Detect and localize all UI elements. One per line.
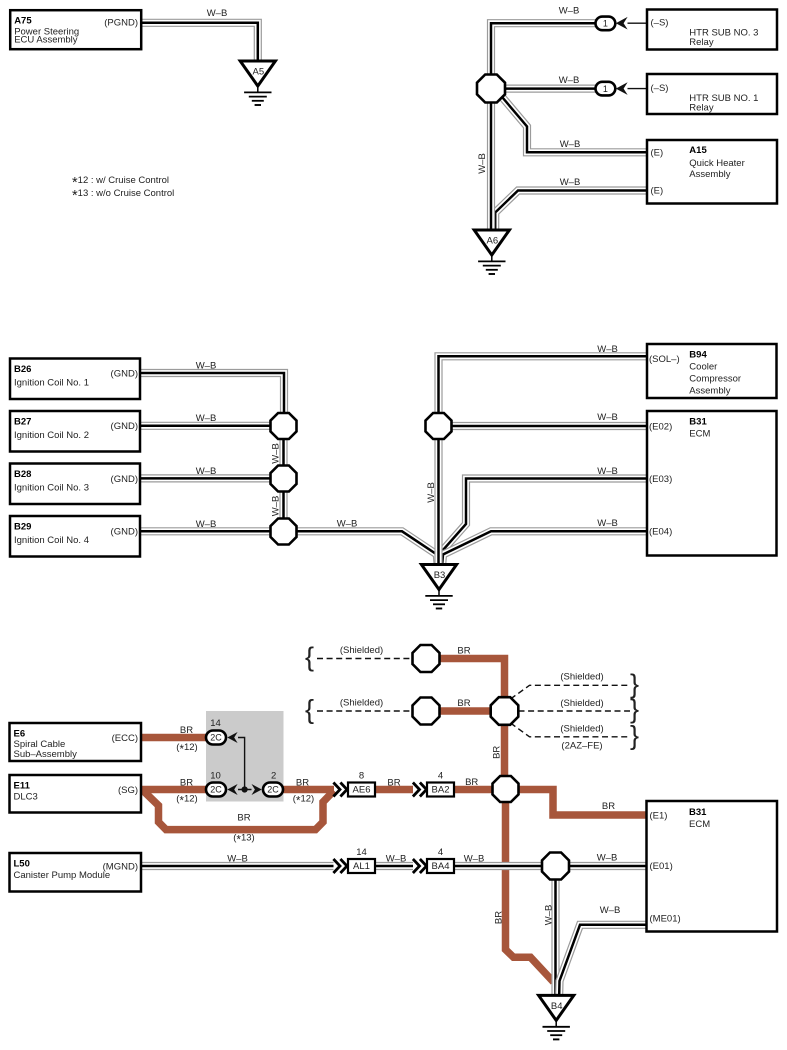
shielded cable right no.1 (dashed + brace) bbox=[511, 669, 640, 699]
svg-text:ECU Assembly: ECU Assembly bbox=[14, 35, 78, 46]
svg-text:(Shielded): (Shielded) bbox=[340, 645, 383, 656]
junction octagon W-B splice (E01) bbox=[542, 853, 569, 880]
svg-text:Ignition Coil No. 1: Ignition Coil No. 1 bbox=[14, 377, 89, 388]
svg-text:W–B: W–B bbox=[337, 519, 358, 530]
svg-text:W–B: W–B bbox=[544, 905, 555, 926]
svg-text:Quick Heater: Quick Heater bbox=[689, 158, 744, 169]
junction octagon shielded no.2 bbox=[413, 698, 440, 725]
junction octagon coil row 3 bbox=[271, 466, 297, 492]
svg-text:B28: B28 bbox=[14, 469, 31, 480]
svg-text:W–B: W–B bbox=[271, 443, 282, 464]
svg-text:AE6: AE6 bbox=[353, 785, 371, 796]
svg-text:Ignition Coil No. 4: Ignition Coil No. 4 bbox=[14, 535, 89, 546]
svg-text:W–B: W–B bbox=[271, 496, 282, 517]
svg-text:BR: BR bbox=[465, 777, 478, 788]
svg-text:W–B: W–B bbox=[196, 519, 217, 530]
svg-text:BR: BR bbox=[387, 777, 400, 788]
wire W-B from B31 (ME01) to ground B4 bundle bbox=[559, 905, 647, 994]
arrow into 2C pin 2 bbox=[252, 784, 262, 795]
svg-text:W–B: W–B bbox=[227, 854, 248, 865]
svg-text:BA2: BA2 bbox=[432, 785, 450, 796]
svg-text:W–B: W–B bbox=[196, 361, 217, 372]
wire W-B from junction to A15 (E) upper bbox=[503, 98, 648, 153]
wire W-B trunk junction down to ground B3 bbox=[426, 439, 439, 564]
svg-text:W–B: W–B bbox=[196, 466, 217, 477]
junction octagon BR splice bbox=[493, 776, 519, 802]
svg-text:W–B: W–B bbox=[597, 518, 618, 529]
svg-text:BR: BR bbox=[180, 777, 193, 788]
ground A5 bbox=[240, 61, 275, 105]
svg-text:14: 14 bbox=[210, 718, 221, 729]
component HTR SUB NO.1 Relay bbox=[647, 74, 777, 114]
svg-text:Ignition Coil No. 2: Ignition Coil No. 2 bbox=[14, 430, 89, 441]
shielded cable row 1 (dashed + brace) bbox=[305, 642, 412, 672]
svg-text:2C: 2C bbox=[210, 733, 222, 743]
svg-text:(Shielded): (Shielded) bbox=[560, 671, 603, 682]
wire BR shielded junction no.2 to main junction bbox=[439, 698, 491, 711]
svg-text:(PGND): (PGND) bbox=[104, 18, 138, 29]
shielded cable right no.2 (dashed + brace) bbox=[519, 694, 640, 724]
component E6 Spiral Cable Sub-Assembly bbox=[10, 723, 142, 761]
wire BR (*13) bypass w/o cruise control bbox=[143, 791, 334, 847]
note cruise control variants bbox=[72, 175, 174, 204]
junction octagon shielded main bbox=[491, 697, 519, 725]
connector BA4 pin 4 bbox=[427, 847, 454, 873]
svg-text:W–B: W–B bbox=[464, 854, 485, 865]
svg-text:2: 2 bbox=[271, 770, 276, 781]
ground A6 bbox=[474, 230, 509, 274]
wire W-B from B31 (E04) to ground B3 bundle bbox=[442, 518, 647, 563]
svg-text:W–B: W–B bbox=[597, 853, 618, 864]
wire W-B from junction up to HTR SUB NO.3 relay connector bbox=[491, 6, 596, 76]
svg-text:B4: B4 bbox=[551, 1001, 563, 1012]
component B28 Ignition Coil No.3 bbox=[10, 464, 140, 505]
svg-text:}: } bbox=[630, 694, 639, 724]
svg-text:B29: B29 bbox=[14, 522, 31, 533]
svg-text:1: 1 bbox=[603, 19, 608, 29]
svg-text:14: 14 bbox=[356, 847, 367, 858]
wire BR from junction down to ground B4 bundle bbox=[493, 800, 553, 982]
svg-text:(SOL–): (SOL–) bbox=[649, 354, 680, 365]
svg-text:Compressor: Compressor bbox=[689, 374, 741, 385]
svg-text:B27: B27 bbox=[14, 417, 31, 428]
svg-text:A75: A75 bbox=[14, 16, 32, 27]
arrow at 2C pin 10 bbox=[227, 784, 237, 795]
wire BR from E11 (SG) to connector 2C pin 10 bbox=[141, 777, 207, 807]
splice chevrons before BA4 bbox=[413, 859, 427, 873]
svg-text:(MGND): (MGND) bbox=[103, 861, 138, 872]
svg-text:W–B: W–B bbox=[597, 344, 618, 355]
svg-text:Assembly: Assembly bbox=[689, 386, 730, 397]
svg-text:W–B: W–B bbox=[207, 8, 228, 19]
svg-text:A5: A5 bbox=[252, 67, 264, 78]
component A75 Power Steering ECU Assembly bbox=[10, 10, 141, 49]
svg-text:(ME01): (ME01) bbox=[650, 914, 681, 925]
svg-text:(E): (E) bbox=[651, 147, 664, 158]
connector BA2 pin 4 bbox=[427, 771, 454, 797]
svg-text:E11: E11 bbox=[14, 780, 31, 791]
component L50 Canister Pump Module bbox=[10, 853, 142, 892]
thin lead HTR SUB NO.3 relay bbox=[628, 22, 648, 24]
wire BR shielded junction no.1 to main junction bbox=[439, 645, 505, 698]
wire W-B from B26 (GND) to junction chain bbox=[140, 361, 284, 415]
connector 2C pin 10 bbox=[206, 770, 226, 796]
arrow at 2C pin 14 bbox=[227, 732, 237, 743]
wire BR from connector 2C pin 2 to splice AE6 bbox=[283, 777, 334, 807]
svg-text:Canister Pump Module: Canister Pump Module bbox=[14, 870, 111, 881]
wire W-B from A15 (E) lower to ground A6 bundle bbox=[495, 177, 647, 229]
svg-text:(E): (E) bbox=[651, 186, 664, 197]
wire W-B from BA4 to junction bbox=[454, 854, 543, 867]
wire W-B from junction up to B94 (SOL-) bbox=[439, 344, 648, 414]
svg-text:W–B: W–B bbox=[196, 413, 217, 424]
connector AE6 pin 8 bbox=[348, 771, 375, 797]
svg-text:(SG): (SG) bbox=[118, 785, 138, 796]
wire BR from E6 (ECC) to connector 2C pin 14 bbox=[141, 725, 207, 756]
svg-text:(–S): (–S) bbox=[651, 18, 669, 29]
wire W-B from B28 (GND) to junction bbox=[140, 466, 271, 479]
svg-text:B94: B94 bbox=[689, 350, 707, 361]
wire W-B from A75 (PGND) to ground A5 bbox=[141, 8, 258, 60]
wire W-B from junction to HTR SUB NO.1 relay connector bbox=[505, 75, 596, 89]
junction octagon shielded no.1 bbox=[413, 645, 440, 672]
component B94 Cooler Compressor Assembly bbox=[647, 344, 777, 398]
svg-text:BR: BR bbox=[296, 777, 309, 788]
wire BR from AE6 to BA2 bbox=[375, 777, 413, 789]
component B31 ECM (lower) bbox=[647, 801, 778, 932]
svg-text:}: } bbox=[630, 721, 639, 751]
svg-text:E6: E6 bbox=[14, 728, 26, 739]
wire W-B junction down to ground B4 bbox=[544, 879, 556, 995]
svg-text:(E01): (E01) bbox=[650, 861, 673, 872]
thin lead HTR SUB NO.1 relay bbox=[628, 88, 648, 90]
connector 1 (HTR SUB NO.1) bbox=[596, 82, 616, 96]
svg-text:1: 1 bbox=[603, 84, 608, 94]
svg-text:(2AZ–FE): (2AZ–FE) bbox=[561, 740, 602, 751]
svg-text:Sub–Assembly: Sub–Assembly bbox=[14, 749, 78, 760]
junction octagon coil row 4 bbox=[271, 519, 297, 545]
svg-text:{: { bbox=[305, 694, 314, 724]
ground B3 bbox=[421, 565, 456, 609]
wire W-B from junction to B31 (E02) bbox=[452, 412, 648, 426]
wire BR from BA2 to junction bbox=[454, 777, 493, 790]
component E11 DLC3 bbox=[10, 775, 142, 813]
component B27 Ignition Coil No.2 bbox=[10, 411, 140, 452]
svg-text:B31: B31 bbox=[689, 417, 707, 428]
svg-text:A6: A6 bbox=[486, 236, 498, 247]
component B31 ECM (upper) bbox=[647, 411, 777, 556]
svg-text:W–B: W–B bbox=[560, 139, 581, 150]
wire W-B from coil junction to ground B3 bundle bbox=[297, 519, 438, 564]
svg-text:W–B: W–B bbox=[600, 905, 621, 916]
splice chevrons before AL1 bbox=[333, 859, 347, 873]
svg-text:BR: BR bbox=[237, 812, 250, 823]
svg-text:Relay: Relay bbox=[689, 103, 714, 114]
wire BR main shielded junction down to splice junction bbox=[492, 724, 505, 777]
shielded cable right no.3 (2AZ-FE) (dashed + brace) bbox=[511, 721, 640, 752]
connector 2C pin 2 bbox=[263, 770, 283, 796]
wire W-B from B27 (GND) to junction bbox=[140, 413, 271, 426]
wire W-B from junction to B31 (E01) bbox=[569, 853, 647, 867]
svg-text:2C: 2C bbox=[267, 785, 279, 795]
junction octagon ECM grounds bbox=[426, 413, 452, 439]
connector AL1 pin 14 bbox=[348, 847, 375, 873]
splice chevrons before AE6 bbox=[333, 783, 347, 797]
svg-text:ECM: ECM bbox=[689, 819, 710, 830]
junction octagon (relay/heater grounds) bbox=[477, 75, 505, 103]
svg-text:(GND): (GND) bbox=[111, 527, 138, 538]
svg-text:BR: BR bbox=[493, 911, 504, 924]
svg-text:(GND): (GND) bbox=[111, 421, 138, 432]
svg-text:B31: B31 bbox=[689, 807, 707, 818]
component A15 Quick Heater Assembly bbox=[647, 140, 777, 204]
wire W-B junction link (coil 3 to coil 4 row) bbox=[271, 492, 284, 520]
svg-text:W–B: W–B bbox=[560, 177, 581, 188]
svg-text:(Shielded): (Shielded) bbox=[560, 723, 603, 734]
svg-text:10: 10 bbox=[210, 770, 221, 781]
svg-text:BR: BR bbox=[180, 725, 193, 736]
svg-text:(E04): (E04) bbox=[649, 527, 672, 538]
arrow into HTR SUB NO.1 relay bbox=[616, 82, 628, 95]
svg-text:Ignition Coil No. 3: Ignition Coil No. 3 bbox=[14, 482, 89, 493]
svg-text:BR: BR bbox=[492, 746, 503, 759]
svg-text:BA4: BA4 bbox=[432, 861, 450, 872]
svg-text:BR: BR bbox=[457, 698, 470, 709]
arrow into HTR SUB NO.3 relay bbox=[616, 17, 628, 30]
svg-text:W–B: W–B bbox=[559, 6, 580, 17]
svg-text:4: 4 bbox=[438, 771, 443, 782]
svg-text:(E03): (E03) bbox=[649, 474, 672, 485]
svg-text:(Shielded): (Shielded) bbox=[340, 698, 383, 709]
component B29 Ignition Coil No.4 bbox=[10, 516, 140, 557]
wire W-B from B31 (E03) to ground B3 bundle bbox=[440, 466, 647, 563]
svg-text:(GND): (GND) bbox=[111, 474, 138, 485]
junction octagon coil row 2 bbox=[271, 413, 297, 439]
highlight box (2C connector group) bbox=[206, 711, 284, 802]
svg-text:W–B: W–B bbox=[597, 412, 618, 423]
link wire between 2C pins (with junction dot) bbox=[238, 738, 252, 793]
svg-text:DLC3: DLC3 bbox=[14, 792, 38, 803]
splice chevrons before BA2 bbox=[413, 783, 427, 797]
svg-text:L50: L50 bbox=[14, 858, 30, 869]
component HTR SUB NO.3 Relay bbox=[647, 10, 777, 50]
component B26 Ignition Coil No.1 bbox=[10, 359, 140, 400]
svg-text:W–B: W–B bbox=[386, 854, 407, 865]
wire BR from junction to B31 (E1) bbox=[519, 790, 648, 816]
svg-text:(E1): (E1) bbox=[650, 810, 668, 821]
wire W-B from L50 (MGND) to splice AL1 bbox=[141, 854, 334, 867]
wire W-B trunk from junction down to ground A6 bbox=[477, 100, 491, 229]
svg-text:AL1: AL1 bbox=[353, 861, 370, 872]
svg-text:2C: 2C bbox=[210, 785, 222, 795]
svg-text:4: 4 bbox=[438, 847, 443, 858]
wire W-B from B29 (GND) to junction bbox=[140, 519, 271, 532]
svg-text:{: { bbox=[305, 642, 314, 672]
connector 1 (HTR SUB NO.3) bbox=[596, 17, 616, 31]
svg-text:(GND): (GND) bbox=[111, 368, 138, 379]
svg-text:A15: A15 bbox=[689, 145, 707, 156]
svg-text:Assembly: Assembly bbox=[689, 169, 730, 180]
svg-text:(ECC): (ECC) bbox=[112, 733, 138, 744]
svg-text:B26: B26 bbox=[14, 364, 31, 375]
wire W-B from AL1 to BA4 bbox=[375, 854, 413, 867]
svg-text:8: 8 bbox=[359, 771, 364, 782]
svg-text:Relay: Relay bbox=[689, 37, 714, 48]
svg-text:Cooler: Cooler bbox=[689, 362, 717, 373]
svg-text:BR: BR bbox=[457, 645, 470, 656]
shielded cable row 2 (dashed + brace) bbox=[305, 694, 412, 724]
svg-text:W–B: W–B bbox=[559, 75, 580, 86]
svg-text:(E02): (E02) bbox=[649, 421, 672, 432]
svg-text:ECM: ECM bbox=[689, 429, 710, 440]
ground B4 bbox=[539, 995, 574, 1039]
svg-text:BR: BR bbox=[602, 801, 615, 812]
svg-text:W–B: W–B bbox=[597, 466, 618, 477]
svg-text:(–S): (–S) bbox=[651, 83, 669, 94]
svg-text:(Shielded): (Shielded) bbox=[560, 698, 603, 709]
svg-text:B3: B3 bbox=[434, 570, 446, 581]
connector 2C pin 14 bbox=[206, 718, 226, 745]
wire W-B junction link (coil 2 to coil 3 row) bbox=[271, 439, 284, 466]
svg-text:W–B: W–B bbox=[426, 482, 437, 503]
svg-text:W–B: W–B bbox=[477, 153, 488, 174]
